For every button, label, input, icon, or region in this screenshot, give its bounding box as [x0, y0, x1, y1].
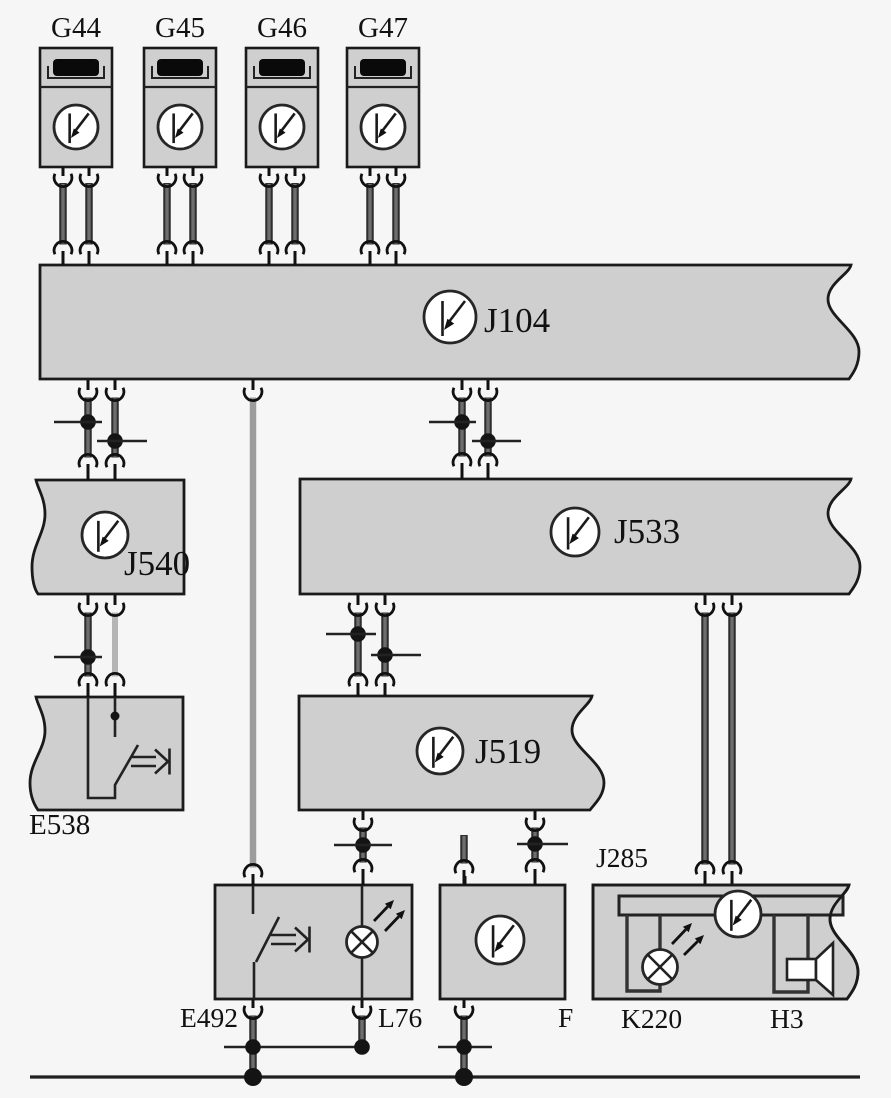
- svg-text:E538: E538: [29, 809, 90, 841]
- svg-text:J540: J540: [124, 544, 190, 583]
- svg-text:K220: K220: [621, 1003, 682, 1034]
- svg-text:G44: G44: [51, 12, 101, 44]
- svg-text:E492: E492: [180, 1002, 238, 1033]
- svg-text:H3: H3: [770, 1003, 804, 1034]
- svg-text:G45: G45: [155, 12, 205, 44]
- svg-text:L76: L76: [378, 1002, 422, 1033]
- svg-text:J533: J533: [614, 512, 680, 551]
- svg-text:J285: J285: [596, 842, 648, 873]
- svg-text:J519: J519: [475, 732, 541, 771]
- svg-text:G47: G47: [358, 12, 408, 44]
- svg-text:G46: G46: [257, 12, 307, 44]
- svg-text:F: F: [558, 1002, 573, 1033]
- svg-text:J104: J104: [484, 301, 550, 340]
